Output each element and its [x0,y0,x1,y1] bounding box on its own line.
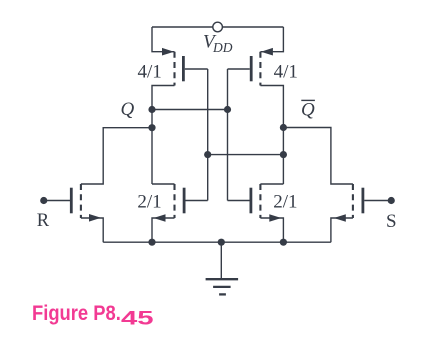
wire S transistor drain to node Qbar [283,128,353,185]
transistor PMOS load right 4/1 : channel [259,52,261,86]
junction dot Q lower (R drain) [148,124,155,131]
wire ground rail [103,241,331,243]
junction dot ground rail right [280,239,287,246]
transistor PMOS load right : gate bar [250,56,253,81]
terminal dot R [40,197,47,204]
transistor NMOS right : source arrow [269,214,281,222]
wire cross-coupling Q to right gates [152,109,228,111]
transistor NMOS input R : gate bar [70,188,73,214]
wire VDD rail left drop [152,27,175,52]
transistor PMOS load left 4/1 : channel [173,52,175,86]
wire ground stem [220,242,222,278]
ground symbol [206,279,239,294]
transistor PMOS load right : source arrow [261,48,273,56]
transistor NMOS input R : channel [80,184,82,218]
junction dot Q upper [148,106,155,113]
transistor PMOS load left : source arrow [162,48,174,56]
junction dot ground rail left [148,239,155,246]
wire left NMOS drain [152,183,175,185]
svg-text:S: S [386,211,397,232]
wire left PMOS gate to node G1 [185,68,208,70]
VDD terminal circle [213,22,223,32]
wire R input to gate [44,200,70,202]
transistor NMOS left 2/1 : channel [173,184,175,218]
svg-text:Q: Q [301,100,315,121]
wire R transistor drain to node Q [81,128,152,184]
junction dot Qbar upper (S drain) [280,124,287,131]
svg-text:Q: Q [121,99,135,120]
transistor NMOS left : source arrow [154,214,166,222]
junction dot net G1 at cross wire [204,151,211,158]
transistor PMOS load left : gate bar [182,56,185,81]
junction dot net G2 at cross wire [224,106,231,113]
svg-text:2/1: 2/1 [273,192,297,213]
wire right PMOS drain to node Qbar [260,86,283,185]
svg-text:4/1: 4/1 [137,62,161,83]
wire cross-coupling Qbar to left gates [208,154,284,156]
transistor NMOS input S : channel [352,184,354,218]
wire left NMOS gate to node G1 [186,200,208,202]
wire right PMOS gate to node G2 [228,68,250,70]
wire S input to gate [364,200,391,202]
svg-text:2/1: 2/1 [137,192,161,213]
junction dot ground rail center [218,239,225,246]
caption Figure P8.45 [32,302,143,326]
svg-text:R: R [37,211,50,231]
transistor NMOS input R : source arrow [89,214,101,222]
svg-text:DD: DD [212,40,233,55]
wire vertical net G2 (right gates) [227,69,229,201]
wire R transistor source to ground rail [81,218,103,242]
junction dot Qbar lower [280,151,287,158]
wire right NMOS drain [260,183,283,185]
wire vertical net G1 (left gates) [207,69,209,201]
wire right NMOS source to ground rail [260,218,283,242]
transistor NMOS input S : gate bar [361,188,364,214]
terminal dot S [388,197,395,204]
wire left NMOS source to ground rail [152,218,175,242]
wire S transistor source to ground rail [331,218,353,242]
transistor NMOS right 2/1 : channel [259,184,261,218]
wire VDD rail right drop [260,27,283,52]
svg-text:4/1: 4/1 [274,62,298,83]
wire right NMOS gate to node G2 [228,200,250,202]
transistor NMOS right : gate bar [249,188,252,214]
transistor NMOS input S : source arrow [334,214,346,222]
transistor NMOS left : gate bar [183,188,186,214]
wire VDD rail [152,26,283,28]
wire left PMOS drain to node Q [152,86,175,185]
